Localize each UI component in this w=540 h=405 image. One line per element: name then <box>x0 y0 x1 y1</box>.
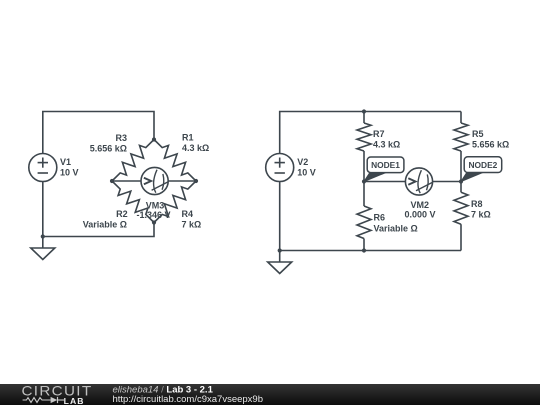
node ground junction left <box>41 234 45 238</box>
wire NODE2 junction to R8 <box>460 182 462 193</box>
wire right branch upper lead <box>460 112 462 124</box>
resistor R8 <box>454 192 468 224</box>
node top rail junction <box>362 109 366 113</box>
node bridge left <box>110 179 114 183</box>
wire V2 bottom vertical <box>279 182 281 251</box>
node bridge bottom <box>152 220 156 224</box>
ground right circuit <box>268 251 292 274</box>
voltmeter VM2 <box>405 168 432 195</box>
voltage source V2 <box>266 154 294 182</box>
resistor R5 <box>454 123 468 151</box>
wire R7 to NODE1 junction <box>363 151 365 182</box>
resistor R6 <box>357 206 371 239</box>
wire R6 to bottom rail <box>363 239 365 251</box>
wire bridge bottom node to ground rail <box>43 223 154 237</box>
wire middle branch upper lead <box>363 112 365 124</box>
svg-text:http://circuitlab.com/c9xa7vse: http://circuitlab.com/c9xa7vseepx9b <box>113 394 264 405</box>
resistor R4 (bridge bottom-right arm) <box>154 181 196 223</box>
logo resistor squiggle <box>23 398 51 403</box>
resistor R7 <box>357 123 371 151</box>
wire bridge left node to voltmeter <box>112 180 141 182</box>
wire bottom rail right circuit <box>280 250 461 252</box>
svg-text:LAB: LAB <box>64 396 85 405</box>
wire R5 to NODE2 junction <box>460 151 462 182</box>
resistor R1 (bridge top-right arm) <box>154 140 196 182</box>
wire NODE1 junction to voltmeter VM2 <box>364 181 406 183</box>
node ground junction right <box>278 248 282 252</box>
node bridge right <box>194 179 198 183</box>
wire voltmeter VM2 to NODE2 junction <box>433 181 462 183</box>
wire NODE1 junction to R6 <box>363 182 365 207</box>
resistor R3 (bridge top-left arm) <box>112 140 154 182</box>
logo diode <box>51 397 58 403</box>
node NODE2 junction <box>459 179 463 183</box>
logo wire to LAB <box>58 399 65 401</box>
node NODE1 junction <box>362 179 366 183</box>
ground left circuit <box>31 237 55 260</box>
node bottom rail junction <box>362 248 366 252</box>
resistor R2 (bridge bottom-left arm) <box>112 181 154 223</box>
wire voltmeter to bridge right node <box>168 180 196 182</box>
node bridge top <box>152 137 156 141</box>
node flag NODE2 <box>461 157 502 182</box>
node flag NODE1 <box>364 157 404 182</box>
wire V1 to bridge top node <box>43 112 154 154</box>
voltmeter VM3 <box>141 167 168 194</box>
wire R8 to bottom rail <box>460 224 462 250</box>
wire V1 bottom vertical <box>42 182 44 237</box>
voltage source V1 <box>29 154 57 182</box>
wire V2 to top rail <box>280 112 461 154</box>
